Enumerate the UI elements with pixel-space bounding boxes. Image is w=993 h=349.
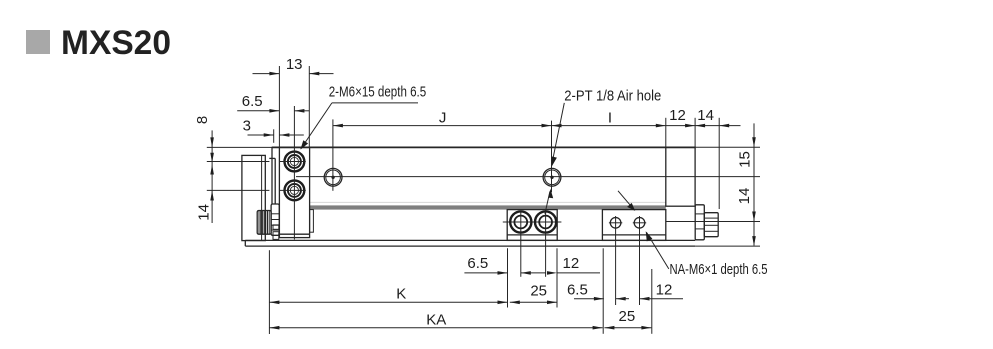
- dim 14 extension line right: [718, 118, 720, 209]
- M6 hole 2 counterbore: [285, 181, 305, 201]
- bottom block inner bottom line: [507, 234, 557, 236]
- NA-M6 hole 1 horizontal axis: [609, 222, 622, 224]
- dim 25L left arrow: [510, 301, 520, 305]
- dim K line: [269, 301, 507, 303]
- dim 8 bottom arrow: [210, 153, 214, 163]
- svg-text:KA: KA: [426, 312, 446, 329]
- svg-text:2-M6×15 depth 6.5: 2-M6×15 depth 6.5: [329, 84, 427, 101]
- right air port center dot: [550, 176, 553, 179]
- NA-M6 label arrowhead: [646, 231, 653, 241]
- svg-text:14: 14: [195, 204, 212, 221]
- right end block: [666, 147, 695, 206]
- dim 12L arrow: [547, 271, 557, 275]
- nut body line 3: [704, 230, 718, 232]
- svg-text:14: 14: [736, 188, 753, 205]
- dim 14 left arrow: [695, 124, 705, 128]
- dim 15 top arrow: [752, 137, 756, 147]
- left air port center dot: [331, 176, 334, 179]
- dim 6.5L tail: [521, 272, 546, 274]
- dim J right arrow: [542, 124, 552, 128]
- left end plate inner face line: [261, 155, 263, 240]
- NA-M6 upper pointer line: [618, 191, 634, 210]
- dim 25R right arrow: [641, 326, 651, 330]
- svg-text:I: I: [608, 109, 612, 126]
- stopper contact strip top: [269, 157, 275, 159]
- dim 3 left tick: [273, 129, 275, 143]
- svg-text:NA-M6×1 depth 6.5: NA-M6×1 depth 6.5: [670, 261, 768, 278]
- label 2-PT leader diagonal: [552, 103, 564, 163]
- hole 2 horizontal axis: [280, 189, 306, 191]
- dim 6.5R right tail: [616, 298, 629, 300]
- M6 hole 2 thread: [288, 184, 301, 197]
- base bottom extension to right dim column: [695, 245, 760, 247]
- dim 12 right arrow: [685, 124, 695, 128]
- second air hole pointer line: [545, 192, 550, 214]
- dim 13 line left tail: [253, 73, 280, 75]
- dim 25R line: [604, 327, 651, 329]
- dim 13 line right tail: [309, 73, 333, 75]
- main horizontal center line through air ports: [296, 176, 760, 178]
- stopper contact strip 2: [274, 158, 276, 204]
- svg-text:3: 3: [243, 117, 251, 134]
- small pad on block left lower: [273, 232, 279, 240]
- dim 6.5R right arrow: [616, 297, 626, 301]
- svg-text:6.5: 6.5: [467, 255, 488, 272]
- extension line block left: [507, 248, 509, 307]
- NA-M6 hole 2 horizontal axis: [633, 222, 646, 224]
- left knurl ribs: [259, 211, 269, 235]
- adjuster nut body: [704, 213, 718, 237]
- bottom dims: extension line K/KA left: [268, 250, 270, 334]
- flange inner line upper: [695, 213, 704, 215]
- svg-text:12: 12: [563, 255, 580, 272]
- bottom hole 1 center vertical: [520, 211, 522, 276]
- M6 hole 1 minor: [290, 157, 298, 165]
- left air port outer circle: [324, 168, 342, 186]
- svg-text:13: 13: [286, 56, 303, 73]
- label 2-M6x15 leader underline: [332, 102, 418, 104]
- svg-text:2-PT 1/8 Air hole: 2-PT 1/8 Air hole: [564, 88, 661, 105]
- dim 6.5 left arrow: [269, 109, 279, 113]
- M6 hole 1 counterbore: [285, 152, 305, 172]
- dim 12 extension line right: [694, 118, 696, 148]
- dim 6.5L row line: [464, 272, 507, 274]
- rail lip right of table block: [310, 210, 314, 233]
- M6 hole 2 minor: [290, 186, 298, 194]
- M6 hole 1 thread: [288, 155, 301, 168]
- dim 14L top arrow: [210, 165, 214, 175]
- dim 14R mid arrow: [752, 212, 756, 222]
- right dim column line: [753, 123, 755, 245]
- hole center vertical line: [293, 106, 295, 240]
- left dim column line: [211, 130, 213, 223]
- body lower face bottom line: [245, 239, 695, 241]
- NA-M6 hole 2 vertical axis / extension: [639, 216, 641, 305]
- top edge extension to right dim column: [696, 146, 760, 148]
- dim 14 right arrow: [719, 124, 729, 128]
- svg-text:14: 14: [697, 107, 714, 124]
- light rail line: [310, 201, 666, 203]
- title block square: [26, 30, 50, 54]
- svg-text:25: 25: [530, 282, 547, 299]
- dim J/I/12/14 shared dimension line: [333, 125, 741, 127]
- dim 6.5L right arrow: [521, 271, 531, 275]
- svg-text:12: 12: [669, 107, 686, 124]
- table top edge line: [272, 146, 696, 148]
- left air port vertical center line: [332, 119, 334, 190]
- label 2-PT arrowhead: [552, 156, 557, 166]
- NA-M6 hole 2: [634, 218, 645, 229]
- right air port vertical center line: [551, 121, 553, 193]
- adjuster flange washer: [695, 205, 704, 240]
- dim 3 right arrow: [279, 133, 289, 137]
- dim K left arrow: [269, 301, 279, 305]
- gray guide rail band: [309, 205, 665, 209]
- adjuster axis line: [666, 221, 760, 223]
- dim 8 top arrow: [210, 137, 214, 147]
- svg-text:25: 25: [619, 308, 636, 325]
- extension line block right: [556, 248, 558, 307]
- dim 13 extension line right: [308, 66, 310, 147]
- flange inner line lower: [695, 228, 704, 230]
- NA-M6 hole 1: [610, 218, 621, 229]
- bottom hole 2 center vertical: [545, 211, 547, 276]
- bottom hole 2 counterbore: [535, 211, 556, 232]
- dim 3 left arrow: [264, 133, 274, 137]
- table block inner bottom line: [279, 233, 309, 235]
- rod boss thread lines: [271, 214, 279, 230]
- left knurled lock nut: [257, 211, 271, 235]
- svg-text:6.5: 6.5: [567, 282, 588, 299]
- hole 2 horizontal axis left extension: [207, 189, 270, 191]
- svg-text:8: 8: [194, 116, 211, 124]
- dim 6.5R arrow: [594, 297, 604, 301]
- NA-M6 upper pointer arrowhead: [627, 203, 635, 211]
- svg-text:J: J: [439, 109, 447, 126]
- bottom mounting block: [507, 210, 557, 241]
- nut body line 2: [704, 224, 718, 226]
- bottom hole 1 thread: [514, 216, 527, 229]
- dim KA line: [269, 327, 602, 329]
- dim 12R tail line: [640, 298, 684, 300]
- left end plate: [242, 155, 265, 240]
- dim I left arrow: [552, 124, 562, 128]
- left table end block: [279, 147, 309, 237]
- dim 6.5L arrow: [498, 271, 508, 275]
- dim 12L tail line: [557, 272, 600, 274]
- dim 3 line right tail: [279, 134, 303, 136]
- extension line KA right: [602, 248, 604, 333]
- dim I right arrow: [656, 124, 666, 128]
- dim 12 extension line left: [665, 118, 667, 148]
- svg-text:12: 12: [656, 281, 673, 298]
- dim 6.5 line right tail: [294, 110, 309, 112]
- dim 25R left arrow: [604, 326, 614, 330]
- dim K right arrow: [498, 301, 508, 305]
- NA-M6 label leader: [647, 232, 669, 269]
- svg-text:K: K: [396, 286, 406, 303]
- dim 25L right arrow: [547, 301, 557, 305]
- dim KA right arrow: [593, 326, 603, 330]
- bottom hole 2 thread: [539, 216, 552, 229]
- dim 6.5 line left tail: [237, 110, 279, 112]
- dim KA left arrow: [269, 326, 279, 330]
- dim J left arrow: [333, 124, 343, 128]
- dim 13 extension line left: [278, 66, 280, 147]
- right panel inner bottom line: [602, 234, 665, 236]
- bottom block hole axis horizontal: [503, 221, 562, 223]
- label 2-M6x15 leader diagonal: [301, 103, 332, 149]
- svg-text:MXS20: MXS20: [61, 24, 171, 62]
- dim 14L bottom arrow: [210, 191, 214, 201]
- hole 1 horizontal axis: [280, 161, 306, 163]
- nut body line 1: [704, 217, 718, 219]
- extension line 12R right: [651, 269, 653, 334]
- svg-text:6.5: 6.5: [242, 93, 263, 110]
- hole 1 horizontal axis left extension: [207, 161, 270, 163]
- dim 3 line left tail: [248, 134, 274, 136]
- dim 6.5 right arrow: [294, 109, 304, 113]
- label 2-M6x15 arrowhead: [300, 140, 308, 149]
- right air port inner circle: [545, 170, 560, 185]
- dim 14R bottom arrow: [752, 236, 756, 246]
- top edge extension to left dim column: [207, 146, 272, 148]
- svg-text:15: 15: [737, 151, 754, 168]
- right lower panel: [602, 210, 665, 241]
- NA-M6 hole 1 vertical axis / extension: [615, 216, 617, 305]
- base bottom line: [245, 245, 695, 247]
- small pad on block left upper: [273, 225, 279, 229]
- dim 12R left arrow: [640, 297, 650, 301]
- dim 13 left arrow: [269, 72, 279, 76]
- dim 13 right arrow: [309, 72, 319, 76]
- left air port inner circle: [326, 170, 341, 185]
- left adjuster rod boss: [271, 204, 279, 235]
- base strip left end edge: [244, 240, 246, 246]
- dim 25L line: [510, 301, 557, 303]
- second air hole pointer arrowhead: [548, 189, 553, 199]
- dim 6.5R row line: [574, 298, 604, 300]
- right air port outer circle: [543, 168, 561, 186]
- stopper contact strip 1: [271, 147, 273, 204]
- bottom hole 1 counterbore: [510, 211, 531, 232]
